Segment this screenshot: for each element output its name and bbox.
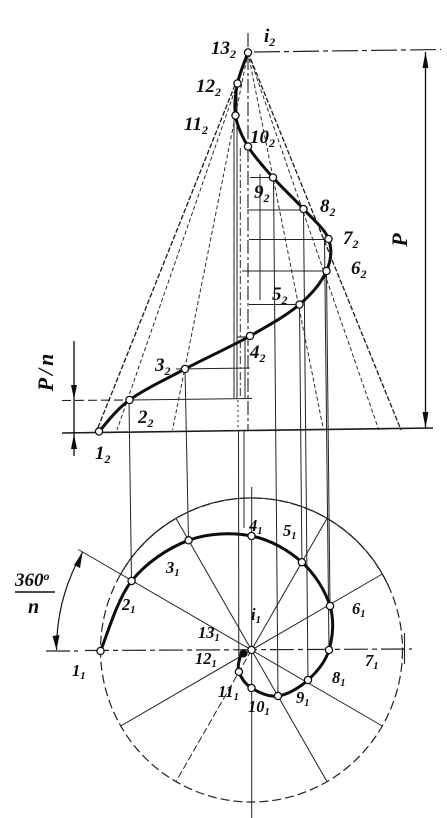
outer base circle in plan (dashed) [101,498,403,802]
point 8_1 [304,676,311,683]
point 5_1 [298,559,305,566]
projection helper x=244 [243,430,245,528]
plan radial 60 [252,518,328,650]
cone left silhouette [97,53,248,431]
cone axis (dash-dot vertical through apex and plan center) [247,33,249,431]
level line 2 [62,399,129,402]
level line 3 [176,368,250,369]
dimension P: vertical line right [425,52,427,428]
plan horizontal centerline (dash-dot) [46,649,412,651]
point 6_1 [326,602,333,609]
svg-text:P/n: P/n [33,351,58,393]
plan radial 240 (dashed) [176,650,252,782]
point 11_1 [235,668,242,675]
point 10_2 [244,143,251,150]
point 3_2 [181,365,188,372]
helix point circles front view [95,49,332,435]
level line 8 [247,209,304,211]
plan vertical diameter [251,487,253,818]
point 1_2 [95,428,102,435]
generator to base 120deg [173,53,249,431]
projection line to 11_1 [238,430,240,670]
level line 4 [237,336,252,338]
dotted continuation below level2 [237,400,239,429]
generator to base 150deg [117,53,248,431]
point 12_1 13_1 blob [240,650,247,657]
centerline tick at circle east [404,633,406,664]
projection line point 5 [300,305,302,563]
generator to base 60deg [248,53,324,431]
point 2_2 [126,396,133,403]
generator to base 30deg [248,53,379,431]
point 3_1 [185,537,192,544]
point 9_1 [274,692,281,699]
helix curve (front view, bold) [99,53,331,432]
svg-text:P: P [387,233,412,248]
point 7_1 [325,646,332,653]
point 8_2 [300,205,307,212]
label 360/n fraction [14,569,55,618]
short helper vertical x=245 [244,340,246,398]
center point i_1 [248,646,255,653]
level line 9 [250,177,272,179]
cone right silhouette [248,53,401,431]
projection helper dash-dot x=240 [239,148,241,396]
labels front view [95,26,367,466]
apex point 13_2 [244,49,251,56]
point 12_2 [234,80,241,87]
projection line point 6 [327,271,331,606]
projection line point 12 [236,84,238,398]
plan radial 30-210 [121,574,383,726]
point 1_1 [97,647,104,654]
outer base circle solid top arc [121,498,389,586]
svg-text:n: n [28,596,39,618]
point 9_2 [269,174,276,181]
projection line point 7 [325,240,330,651]
plan spiral curve (bold) [101,534,333,696]
dimension P arrows [423,52,429,428]
projection line point 11 [233,116,235,399]
dimension P/n: vertical line [73,341,75,456]
top level line from apex to P dimension (dash-dot) [254,50,441,53]
plan radial 120-300 [176,518,327,781]
level line 7 [249,239,326,241]
projection line point 8 [304,210,309,680]
plan radial 150-330 with extension [78,550,382,727]
point 6_2 [323,267,330,274]
point 4_2 [246,332,253,339]
projection line point 3 [185,369,189,540]
projection line point 2 [129,400,132,581]
level line 5 [249,304,300,306]
angle arc arrows [53,552,83,650]
labels plan view [72,516,379,718]
point 11_2 [232,112,239,119]
projection line point 9 [274,178,279,697]
level line 6 [242,270,324,272]
dimension P/n arrows [71,385,77,449]
cone base line [62,428,433,433]
helper vertical x260 [259,174,261,300]
point 5_2 [296,301,303,308]
angle dimension arc 360/n [56,552,82,650]
point 7_2 [325,235,332,242]
spiral point circles plan view [97,532,334,699]
point 2_1 [128,577,135,584]
point 4_1 [248,532,255,539]
point 10_1 [248,684,255,691]
